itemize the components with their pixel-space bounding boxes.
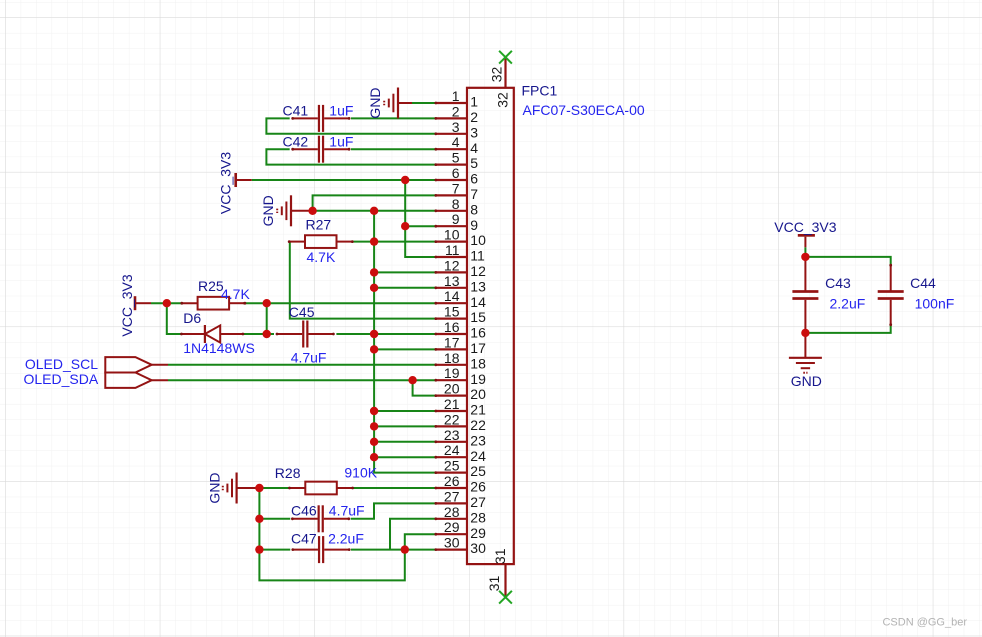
wire to pin24 bbox=[374, 456, 436, 458]
label D6 bbox=[183, 310, 201, 326]
wire C45 right to pin16 bbox=[336, 333, 435, 335]
label R27 bbox=[306, 217, 332, 233]
wire branch to pin29 bbox=[405, 534, 436, 549]
pin 32 name bbox=[495, 92, 511, 108]
connector FPC1 pin stubs 1-30 bbox=[434, 102, 467, 551]
svg-text:VCC_3V3: VCC_3V3 bbox=[119, 274, 135, 336]
svg-text:2: 2 bbox=[452, 103, 460, 119]
svg-text:12: 12 bbox=[470, 263, 486, 279]
svg-text:GND: GND bbox=[367, 87, 383, 118]
svg-text:25: 25 bbox=[444, 458, 460, 474]
label VCC_3V3 at R25 bbox=[119, 274, 135, 336]
svg-text:100nF: 100nF bbox=[915, 296, 955, 312]
wire to pin13 bbox=[374, 287, 436, 289]
power VCC_3V3 flag right section bbox=[798, 234, 815, 247]
wire C46 right up to pin27 bbox=[351, 503, 436, 518]
watermark bbox=[882, 617, 967, 629]
svg-text:4.7K: 4.7K bbox=[307, 249, 336, 265]
port OLED_SCL flag bbox=[105, 357, 168, 372]
connector FPC1 pin names 1-30 bbox=[470, 94, 486, 557]
svg-text:4: 4 bbox=[470, 140, 478, 156]
svg-text:R27: R27 bbox=[306, 217, 332, 233]
ground GND flag right section bbox=[789, 333, 822, 373]
capacitor C47 bbox=[291, 536, 350, 563]
svg-text:CSDN @GG_ber: CSDN @GG_ber bbox=[882, 617, 967, 629]
label D6 value 1N4148WS bbox=[183, 340, 255, 356]
svg-text:12: 12 bbox=[444, 257, 460, 273]
svg-text:21: 21 bbox=[444, 396, 460, 412]
svg-text:8: 8 bbox=[470, 201, 478, 217]
svg-text:5: 5 bbox=[470, 155, 478, 171]
svg-text:21: 21 bbox=[470, 402, 486, 418]
svg-text:GND: GND bbox=[207, 472, 223, 503]
svg-text:R28: R28 bbox=[275, 465, 301, 481]
svg-text:C44: C44 bbox=[910, 275, 936, 291]
svg-text:3: 3 bbox=[452, 119, 460, 135]
wire junction down to D6 bbox=[167, 303, 182, 334]
capacitor C44 bbox=[878, 264, 904, 326]
svg-text:14: 14 bbox=[444, 288, 460, 304]
svg-text:VCC_3V3: VCC_3V3 bbox=[774, 219, 836, 235]
svg-text:29: 29 bbox=[444, 519, 460, 535]
label C42 value 1uF bbox=[329, 133, 353, 149]
capacitor C43 bbox=[792, 256, 818, 335]
label C47 bbox=[291, 531, 317, 547]
svg-text:10: 10 bbox=[444, 227, 460, 243]
svg-text:11: 11 bbox=[470, 248, 485, 264]
svg-text:28: 28 bbox=[444, 504, 460, 520]
wire C44 bottom to C43 bottom bbox=[805, 325, 890, 333]
svg-text:910K: 910K bbox=[344, 464, 377, 480]
svg-text:31: 31 bbox=[492, 548, 508, 564]
label GND at pin8 bbox=[260, 195, 276, 226]
svg-text:C47: C47 bbox=[291, 531, 317, 547]
svg-text:1uF: 1uF bbox=[329, 103, 353, 119]
svg-text:30: 30 bbox=[444, 535, 460, 551]
capacitor C46 bbox=[291, 505, 350, 532]
label R25 value 4.7K bbox=[221, 286, 250, 302]
label C46 bbox=[291, 503, 317, 519]
svg-text:2: 2 bbox=[470, 109, 478, 125]
svg-text:6: 6 bbox=[470, 171, 478, 187]
svg-text:C42: C42 bbox=[283, 133, 309, 149]
power VCC_3V3 flag at pin6 bbox=[234, 173, 251, 187]
label C41 bbox=[283, 103, 309, 119]
label GND right section bbox=[791, 373, 822, 389]
svg-text:7: 7 bbox=[452, 180, 460, 196]
label OLED_SDA bbox=[23, 371, 98, 387]
wire VCC_3V3 to pin6 bbox=[252, 179, 436, 181]
wire GND to pin7 bbox=[313, 195, 436, 210]
label C47 value 2.2uF bbox=[328, 531, 364, 547]
svg-text:28: 28 bbox=[470, 509, 486, 525]
svg-text:FPC1: FPC1 bbox=[522, 83, 558, 99]
wire pin1 to GND bbox=[412, 102, 436, 104]
svg-text:25: 25 bbox=[470, 463, 486, 479]
pin 32 stub bbox=[504, 57, 506, 88]
svg-text:17: 17 bbox=[444, 334, 460, 350]
svg-text:2.2uF: 2.2uF bbox=[328, 531, 364, 547]
svg-text:D6: D6 bbox=[183, 310, 201, 326]
wire branch to pin20 bbox=[413, 380, 436, 395]
svg-text:17: 17 bbox=[470, 340, 486, 356]
svg-text:32: 32 bbox=[495, 92, 511, 108]
label R28 value 910K bbox=[344, 464, 377, 480]
wire GND to C46 bbox=[259, 518, 290, 520]
resistor R28 bbox=[288, 482, 354, 495]
svg-text:19: 19 bbox=[470, 371, 486, 387]
svg-text:10: 10 bbox=[470, 232, 486, 248]
svg-text:24: 24 bbox=[444, 442, 460, 458]
svg-text:30: 30 bbox=[470, 540, 486, 556]
svg-text:4.7uF: 4.7uF bbox=[329, 503, 365, 519]
label FPC1 bbox=[522, 83, 558, 99]
svg-text:23: 23 bbox=[470, 432, 486, 448]
wire to pin9 bbox=[405, 225, 436, 227]
svg-text:4.7K: 4.7K bbox=[221, 286, 250, 302]
wire to pin23 bbox=[374, 441, 436, 443]
label C43 bbox=[825, 275, 851, 291]
label C42 bbox=[283, 133, 309, 149]
svg-text:24: 24 bbox=[470, 448, 486, 464]
svg-text:27: 27 bbox=[444, 488, 460, 504]
wire GND to C47 bbox=[259, 549, 290, 551]
diode D6 bbox=[180, 325, 244, 343]
svg-text:26: 26 bbox=[444, 473, 460, 489]
svg-text:20: 20 bbox=[470, 386, 486, 402]
resistor R25 bbox=[180, 297, 246, 310]
wire C42 right to pin4 bbox=[351, 148, 436, 150]
svg-text:5: 5 bbox=[452, 150, 460, 166]
svg-text:6: 6 bbox=[452, 165, 460, 181]
svg-text:16: 16 bbox=[470, 325, 486, 341]
pin 31 name bbox=[492, 548, 508, 564]
wire branch pin6 to pin11 bbox=[405, 180, 436, 257]
wire R28 right to pin26 bbox=[350, 487, 436, 489]
label C44 bbox=[910, 275, 936, 291]
label C44 value 100nF bbox=[915, 296, 955, 312]
label VCC_3V3 right section bbox=[774, 219, 836, 235]
svg-text:C45: C45 bbox=[289, 304, 315, 320]
svg-text:18: 18 bbox=[470, 355, 486, 371]
label C43 value 2.2uF bbox=[830, 296, 866, 312]
resistor R27 bbox=[288, 235, 354, 248]
svg-text:11: 11 bbox=[445, 242, 460, 258]
svg-text:GND: GND bbox=[791, 373, 822, 389]
connector FPC1 pin numbers 1-30 bbox=[444, 88, 460, 551]
pin 32 number bbox=[488, 67, 504, 83]
svg-text:OLED_SCL: OLED_SCL bbox=[25, 356, 98, 372]
svg-text:C46: C46 bbox=[291, 503, 317, 519]
label VCC_3V3 at pin6 bbox=[218, 152, 234, 214]
label C41 value 1uF bbox=[329, 103, 353, 119]
svg-text:15: 15 bbox=[470, 309, 486, 325]
svg-text:22: 22 bbox=[444, 411, 460, 427]
wire C42 left loop to pin5 bbox=[266, 149, 435, 164]
svg-text:3: 3 bbox=[470, 124, 478, 140]
svg-text:14: 14 bbox=[470, 294, 486, 310]
wire VCC_3V3 down to C43 node bbox=[804, 247, 806, 257]
svg-text:R25: R25 bbox=[198, 278, 224, 294]
svg-text:1: 1 bbox=[470, 94, 478, 110]
capacitor C45 bbox=[276, 321, 335, 348]
label R28 bbox=[275, 465, 301, 481]
wire R25 right to pin14 bbox=[243, 302, 436, 304]
label GND at R28 bbox=[207, 472, 223, 503]
wire R27 left down to pin15 bbox=[290, 242, 436, 319]
svg-text:AFC07-S30ECA-00: AFC07-S30ECA-00 bbox=[523, 102, 645, 118]
connector FPC1 body bbox=[467, 88, 514, 564]
label AFC07-S30ECA-00 bbox=[523, 102, 645, 118]
svg-text:1: 1 bbox=[452, 88, 460, 104]
svg-text:8: 8 bbox=[452, 196, 460, 212]
wire C41 right to pin2 bbox=[351, 117, 436, 119]
svg-text:23: 23 bbox=[444, 427, 460, 443]
svg-text:C43: C43 bbox=[825, 275, 851, 291]
wire to pin22 bbox=[374, 425, 436, 427]
pin 31 number bbox=[486, 576, 502, 592]
pin 31 stub bbox=[504, 564, 506, 597]
svg-text:18: 18 bbox=[444, 350, 460, 366]
label R27 value 4.7K bbox=[307, 249, 336, 265]
wire D6 right bbox=[243, 333, 274, 335]
svg-text:7: 7 bbox=[470, 186, 478, 202]
svg-text:13: 13 bbox=[470, 278, 486, 294]
svg-text:9: 9 bbox=[470, 217, 478, 233]
wire OLED_SCL to pin18 bbox=[168, 364, 436, 366]
capacitor C42 bbox=[291, 136, 350, 163]
svg-text:31: 31 bbox=[486, 576, 502, 592]
svg-text:19: 19 bbox=[444, 365, 460, 381]
svg-text:4: 4 bbox=[452, 134, 460, 150]
wire GND vertical and bottom loop bbox=[259, 488, 404, 580]
wire C43 top to C44 top bbox=[805, 257, 890, 265]
wire to pin12 bbox=[374, 271, 436, 273]
ground GND flag at pin8 bbox=[277, 195, 312, 226]
power VCC_3V3 flag at R25 bbox=[134, 296, 151, 310]
no-connect flag pin 32 bbox=[499, 51, 512, 64]
ground GND flag at pin1 bbox=[384, 88, 412, 119]
wire OLED_SDA to pin19 bbox=[168, 379, 436, 381]
wire link R25-D6 right junctions bbox=[266, 303, 268, 334]
svg-text:4.7uF: 4.7uF bbox=[291, 350, 327, 366]
wire GND to pin8 bbox=[313, 210, 436, 212]
wire bus branch pin8 to pin25 bbox=[374, 211, 436, 473]
svg-text:20: 20 bbox=[444, 381, 460, 397]
no-connect flag pin 31 bbox=[499, 591, 512, 604]
svg-text:C41: C41 bbox=[283, 103, 309, 119]
svg-text:32: 32 bbox=[488, 67, 504, 83]
svg-text:VCC_3V3: VCC_3V3 bbox=[218, 152, 234, 214]
svg-text:29: 29 bbox=[470, 525, 486, 541]
svg-text:22: 22 bbox=[470, 417, 486, 433]
svg-text:26: 26 bbox=[470, 479, 486, 495]
label OLED_SCL bbox=[25, 356, 98, 372]
svg-text:13: 13 bbox=[444, 273, 460, 289]
label C45 bbox=[289, 304, 315, 320]
wire pin28 down to GND loop bbox=[390, 519, 436, 550]
ground GND flag at R28 bbox=[223, 473, 260, 504]
label GND at pin1 bbox=[367, 87, 383, 118]
label R25 bbox=[198, 278, 224, 294]
wire VCC_3V3 to R25 bbox=[151, 302, 182, 304]
label C45 value 4.7uF bbox=[291, 350, 327, 366]
svg-text:OLED_SDA: OLED_SDA bbox=[23, 371, 98, 387]
label C46 value 4.7uF bbox=[329, 503, 365, 519]
wire C41 left loop to pin3 bbox=[266, 118, 435, 133]
wire C47 right to pin30 bbox=[351, 549, 436, 551]
wire GND to R28 bbox=[255, 487, 291, 489]
svg-text:16: 16 bbox=[444, 319, 460, 335]
wire to pin21 bbox=[374, 410, 436, 412]
svg-text:9: 9 bbox=[452, 211, 460, 227]
wire to pin17 bbox=[374, 348, 436, 350]
port OLED_SDA flag bbox=[105, 373, 168, 388]
capacitor C41 bbox=[291, 105, 350, 132]
svg-text:15: 15 bbox=[444, 304, 460, 320]
svg-text:2.2uF: 2.2uF bbox=[830, 296, 866, 312]
svg-text:1N4148WS: 1N4148WS bbox=[183, 340, 255, 356]
svg-text:GND: GND bbox=[260, 195, 276, 226]
svg-text:27: 27 bbox=[470, 494, 486, 510]
wire R27 right to pin10 bbox=[352, 241, 435, 243]
svg-text:1uF: 1uF bbox=[329, 133, 353, 149]
